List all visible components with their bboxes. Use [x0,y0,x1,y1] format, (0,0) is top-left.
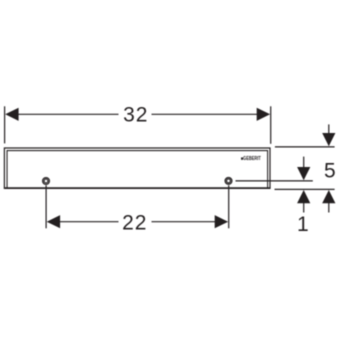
hole left outer circle [43,178,50,185]
dimension 1 top arrow shaft [303,157,305,168]
dimension 32 line right segment [152,113,259,115]
dimension 5 bottom arrowhead [322,190,335,203]
svg-text:32: 32 [123,103,147,126]
dimension 5 extension line top [275,146,335,148]
dimension 5 bottom arrow shaft [328,202,330,213]
dimension 1 top arrowhead [297,167,310,180]
hole right inner circle [227,179,231,183]
hole left inner circle [44,179,48,183]
dimension 1 extension line at holes level [236,180,313,182]
dimension 5 top arrow shaft [328,124,330,136]
dimension 32 extension line right [270,106,272,144]
dimension 22 extension line left [45,185,47,228]
dimension 22 arrowhead right [215,215,228,228]
dimension 1 bottom arrowhead [297,190,310,203]
dimension 5 and 1 extension line bottom [275,188,335,190]
svg-text:22: 22 [122,211,146,234]
dimension 1 bottom arrow shaft [303,202,305,213]
shelf outline outer top-left-right [4,148,270,188]
dimension 32 line left segment [18,113,119,115]
hole right outer circle [225,178,232,185]
dimension 22 extension line right [228,185,230,228]
dimension 5 top arrowhead [322,133,335,146]
svg-text:■GEBERIT: ■GEBERIT [241,155,261,161]
shelf outline bottom edge [4,187,271,189]
dimension 22 arrowhead left [47,215,60,228]
shelf outline inner edge [7,151,268,188]
dimension 32 arrowhead left [5,108,18,121]
dimension 32 extension line left [4,106,6,143]
svg-text:1: 1 [297,213,309,236]
svg-text:5: 5 [324,159,336,182]
dimension 22 line left segment [59,221,119,223]
dimension 32 arrowhead right [257,108,270,121]
dimension 22 line right segment [152,221,216,223]
